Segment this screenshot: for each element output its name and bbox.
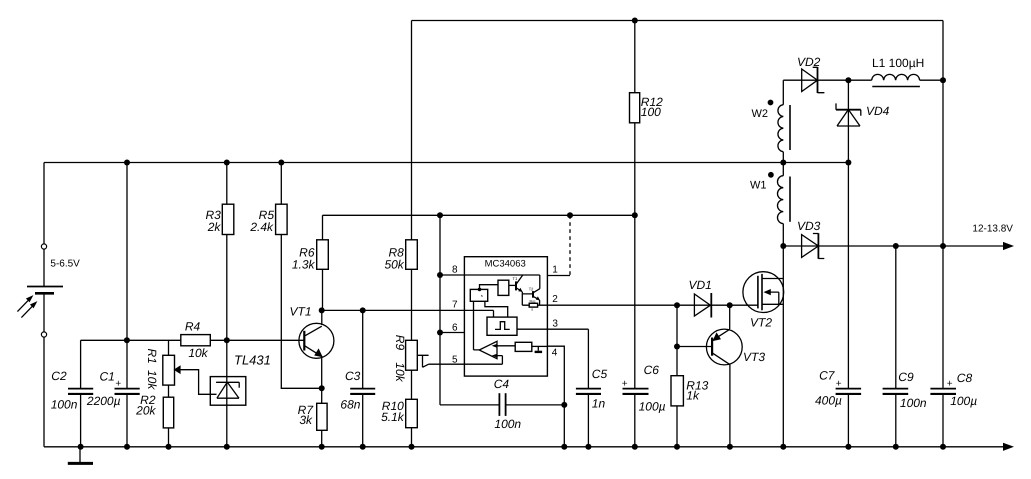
svg-text:VD4: VD4 xyxy=(866,104,890,118)
node W1 VD3 anode junction xyxy=(780,243,786,249)
battery GB1 solar cell xyxy=(17,244,63,337)
svg-text:T1: T1 xyxy=(513,276,518,281)
resistor R10 xyxy=(406,399,418,427)
resistor R12 xyxy=(630,93,640,123)
wire vertical pin8-pin6-C4 xyxy=(439,215,441,405)
node R5 vcc rail junction xyxy=(278,160,284,166)
wire pin 8 lead xyxy=(440,274,464,276)
transistor VT2 MOSFET xyxy=(743,272,784,313)
latch block internal xyxy=(470,289,487,301)
node pin 8 junction xyxy=(437,272,443,278)
svg-text:2k: 2k xyxy=(207,220,222,234)
comparator internal xyxy=(479,341,497,358)
svg-text:L1 100µH: L1 100µH xyxy=(872,56,924,70)
svg-text:C8: C8 xyxy=(957,371,973,385)
svg-text:C7: C7 xyxy=(819,369,836,383)
svg-text:s: s xyxy=(531,308,533,312)
wire R9 wiper tap to pin 5 xyxy=(417,355,428,367)
oscillator block xyxy=(487,317,517,335)
svg-text:W2: W2 xyxy=(752,108,769,120)
wire latch to comparator output xyxy=(474,301,480,350)
svg-text:7: 7 xyxy=(452,300,458,311)
svg-text:R4: R4 xyxy=(185,320,201,334)
wire VT3 collector down xyxy=(729,365,731,447)
wire C4 line xyxy=(440,404,564,406)
wire latch to oscillator xyxy=(485,301,508,317)
svg-text:R1: R1 xyxy=(145,349,159,364)
node ground C2 junction xyxy=(78,444,84,450)
node mid rail R12 junction xyxy=(632,212,638,218)
svg-text:T2: T2 xyxy=(529,287,534,292)
wire pin 4 to C4 right and ground xyxy=(547,346,564,447)
wire battery branch left xyxy=(43,163,45,447)
node ground C9 junction xyxy=(893,444,899,450)
node ground TL431 junction xyxy=(224,444,230,450)
transistor T1 internal xyxy=(513,275,523,292)
inductor L1 xyxy=(872,74,920,86)
resistor R9 trimmer xyxy=(406,340,418,370)
wire pin7 internal to oscillator xyxy=(464,310,493,317)
node ground VT2 junction xyxy=(780,444,786,450)
resistor R1 potentiometer xyxy=(163,355,181,385)
resistor R5 xyxy=(276,204,288,234)
ground xyxy=(68,447,93,464)
wire ground rail xyxy=(44,446,1004,448)
node ground C8 junction xyxy=(940,444,946,450)
node ground C5 junction xyxy=(585,444,591,450)
svg-text:20k: 20k xyxy=(135,404,156,418)
wire transformer main vertical xyxy=(782,80,784,447)
wire comparator noninv input from pin5 xyxy=(464,356,502,365)
svg-text:VD3: VD3 xyxy=(797,219,821,233)
svg-text:C3: C3 xyxy=(345,369,361,383)
wire dashed link pin1 to rail xyxy=(569,215,571,275)
svg-text:2: 2 xyxy=(552,294,558,305)
node L1 output junction xyxy=(940,77,946,83)
capacitor C1 xyxy=(115,389,140,394)
wire C1 leads xyxy=(126,163,128,447)
wire VT1 collector up xyxy=(321,310,323,325)
svg-text:VT1: VT1 xyxy=(289,305,311,319)
svg-text:10k: 10k xyxy=(188,346,208,360)
svg-text:2.4k: 2.4k xyxy=(249,220,274,234)
svg-text:W1: W1 xyxy=(750,180,767,192)
wire R5 branch to VT1 emitter node xyxy=(281,163,321,389)
node VD4 anode rail junction xyxy=(845,160,851,166)
svg-text:3: 3 xyxy=(552,319,558,330)
wire R1 top drop xyxy=(168,340,170,355)
svg-text:5-6.5V: 5-6.5V xyxy=(50,259,80,270)
svg-text:C6: C6 xyxy=(644,363,660,377)
node ground C3 junction xyxy=(360,444,366,450)
node ground C7 junction xyxy=(845,444,851,450)
node VT1 emitter R7 junction xyxy=(319,385,325,391)
svg-text:6: 6 xyxy=(452,323,458,334)
svg-text:8: 8 xyxy=(452,265,458,276)
wire node to VT1 base xyxy=(227,339,304,341)
svg-text:VD1: VD1 xyxy=(689,278,712,292)
wire VT3 base lead xyxy=(677,346,712,348)
node VD1 cathode VT2 gate junction xyxy=(727,302,733,308)
svg-text:100n: 100n xyxy=(51,398,78,412)
capacitor C5 xyxy=(576,389,601,394)
resistor ref internal xyxy=(515,342,532,351)
capacitor C7 xyxy=(836,389,862,394)
resistor R7 xyxy=(317,403,327,430)
wire pin 5 line xyxy=(429,363,465,365)
node VT3 base R13 junction xyxy=(674,344,680,350)
node C8 output junction xyxy=(940,243,946,249)
svg-text:+: + xyxy=(622,379,628,390)
svg-text:+: + xyxy=(836,379,842,390)
svg-text:VT3: VT3 xyxy=(743,350,765,364)
svg-text:100µ: 100µ xyxy=(639,400,666,414)
svg-text:400µ: 400µ xyxy=(815,394,842,408)
resistor R13 xyxy=(671,376,683,406)
wire pin3 internal xyxy=(517,328,547,330)
svg-text:10k: 10k xyxy=(145,370,159,390)
transistor VT3 xyxy=(706,329,742,365)
wire VT3 emitter up xyxy=(729,305,731,329)
ground internal ref xyxy=(535,346,543,352)
transformer winding W2 xyxy=(778,105,790,152)
wire C2 top bend to node line xyxy=(81,339,181,341)
wire pin 7 line xyxy=(323,309,465,311)
wire VCC rail (5-6.5V) xyxy=(44,162,848,164)
wire VD1 node down to R13 xyxy=(676,305,678,447)
node C1-C2 feedback junction xyxy=(124,337,130,343)
node ground R7 junction xyxy=(319,444,325,450)
resistor R2 xyxy=(163,397,173,428)
svg-text:100: 100 xyxy=(641,105,661,119)
capacitor C3 xyxy=(350,389,375,394)
svg-text:4: 4 xyxy=(552,348,558,359)
node C3 pin7 line junction xyxy=(360,307,366,313)
wire pin 1 lead xyxy=(547,275,570,277)
transistor VT1 xyxy=(299,323,334,358)
node ground C6 junction xyxy=(632,444,638,450)
wire internal pin8 bus xyxy=(464,275,539,289)
node C1 vcc rail junction xyxy=(124,160,130,166)
diode VD4 schottky xyxy=(836,103,861,126)
capacitor C2 xyxy=(68,389,93,394)
svg-text:1k: 1k xyxy=(686,389,700,403)
transistor T2 internal xyxy=(529,287,540,301)
wire output line 12-13.8V xyxy=(783,245,1003,247)
svg-text:C5: C5 xyxy=(592,367,608,381)
wire C9 branch xyxy=(895,246,897,447)
svg-text:50k: 50k xyxy=(384,258,404,272)
resistor R4 xyxy=(181,335,211,346)
node ground R10 junction xyxy=(409,444,415,450)
svg-text:MC34063: MC34063 xyxy=(485,258,526,269)
svg-text:+: + xyxy=(947,379,953,390)
svg-text:VT2: VT2 xyxy=(750,316,772,330)
IC U1 MC34063 body xyxy=(464,257,547,376)
node R3 vcc rail junction xyxy=(224,160,230,166)
svg-text:12-13.8V: 12-13.8V xyxy=(972,224,1013,235)
wire pin 6 lead xyxy=(440,332,464,334)
node transformer center tap junction xyxy=(780,160,786,166)
resistor R8 xyxy=(406,240,418,269)
node VD2-VD4-L1 junction xyxy=(845,77,851,83)
node ground C4 junction xyxy=(561,444,567,450)
svg-text:C4: C4 xyxy=(494,377,510,391)
wire pin 3 to C5 xyxy=(547,329,588,447)
resistor R6 xyxy=(317,240,329,269)
node ground VT3 junction xyxy=(727,444,733,450)
node mid rail pin8 branch junction xyxy=(437,212,443,218)
svg-text:10k: 10k xyxy=(393,362,407,382)
wire C3 branch xyxy=(362,310,364,446)
capacitor C9 xyxy=(883,389,909,394)
node C4 pin4 junction xyxy=(561,402,567,408)
wire R1-R2 link and R2 bottom xyxy=(168,385,170,447)
wire VD4 branch with C7 xyxy=(847,80,849,447)
diode VD2 schottky xyxy=(802,67,825,93)
wire latch top to gate block xyxy=(480,285,499,290)
svg-text:+: + xyxy=(115,379,121,390)
wire pin 2 line to VT2 gate xyxy=(547,304,758,306)
svg-text:3k: 3k xyxy=(299,413,313,427)
arrow ground rail xyxy=(1003,443,1014,451)
svg-text:C9: C9 xyxy=(898,370,914,384)
svg-text:5.1k: 5.1k xyxy=(381,410,405,424)
resistor R3 xyxy=(222,204,234,234)
node VD1 anode R13 junction xyxy=(674,302,680,308)
svg-text:C1: C1 xyxy=(100,370,115,384)
svg-text:5: 5 xyxy=(452,354,458,365)
wire VD2 branch xyxy=(783,79,848,81)
svg-text:100n: 100n xyxy=(494,417,521,431)
wire right vertical rail to output and C8 xyxy=(942,21,944,447)
node latch top junction xyxy=(478,288,482,292)
svg-text:Rsc: Rsc xyxy=(530,299,536,303)
node W1 phase dot xyxy=(768,172,774,178)
node R4 TL431 junction xyxy=(224,337,230,343)
resistor Rsc internal xyxy=(529,299,537,311)
node ground C1 junction xyxy=(124,444,130,450)
svg-text:100n: 100n xyxy=(900,396,927,410)
wire L1 leads xyxy=(848,79,943,81)
wire T2 emitter to pin2 xyxy=(539,300,541,305)
svg-text:TL431: TL431 xyxy=(234,353,271,368)
wire ref resistor to pin4 edge xyxy=(532,345,548,347)
svg-text:68n: 68n xyxy=(340,398,360,412)
wire R4 right lead xyxy=(210,339,227,341)
svg-text:1.3k: 1.3k xyxy=(292,258,316,272)
svg-text:2200µ: 2200µ xyxy=(86,394,121,408)
svg-text:100µ: 100µ xyxy=(950,394,977,408)
arrow output line xyxy=(1003,242,1014,250)
node pin 6 junction xyxy=(437,330,443,336)
wire gate block to T1 base xyxy=(509,284,516,286)
node ground R13 junction xyxy=(674,444,680,450)
capacitor C4 xyxy=(499,393,505,416)
diode VD3 schottky xyxy=(802,233,825,259)
svg-text:1: 1 xyxy=(552,264,558,275)
wire R12 C6 branch xyxy=(634,21,636,447)
node W2 phase dot xyxy=(768,100,774,106)
wire R8 R9 R10 chain xyxy=(411,21,413,447)
wire top supply rail xyxy=(412,20,944,22)
wire R3 branch with TL431 xyxy=(226,163,228,447)
transformer winding W1 xyxy=(777,176,790,224)
wire C2 leads xyxy=(80,340,82,447)
wire R6 bottom to pin7 node xyxy=(322,269,324,310)
svg-text:s: s xyxy=(481,293,483,298)
node C9 output junction xyxy=(893,243,899,249)
wire mid rail to R12 node xyxy=(323,215,635,240)
wire R1 wiper to TL431 ref xyxy=(180,370,216,395)
node mid rail dashed branch junction xyxy=(567,212,573,218)
diode VD1 xyxy=(694,293,711,318)
svg-text:C2: C2 xyxy=(51,369,67,383)
node VT1 collector R6 junction xyxy=(319,307,325,313)
capacitor C8 xyxy=(930,389,956,394)
svg-text:1n: 1n xyxy=(592,397,606,411)
wire VT1 emitter down and R7 xyxy=(321,357,323,447)
svg-text:R9: R9 xyxy=(393,335,407,351)
node R12 top rail junction xyxy=(632,18,638,24)
node ground R2 junction xyxy=(166,444,172,450)
gate block internal xyxy=(498,280,509,295)
capacitor C6 xyxy=(623,389,649,394)
svg-text:VD2: VD2 xyxy=(797,55,821,69)
wire comparator inv input to ref resistor xyxy=(497,345,515,347)
wire T1 emitter to T2 base and sense resistor xyxy=(522,292,547,306)
TL431 U1 xyxy=(210,377,246,406)
